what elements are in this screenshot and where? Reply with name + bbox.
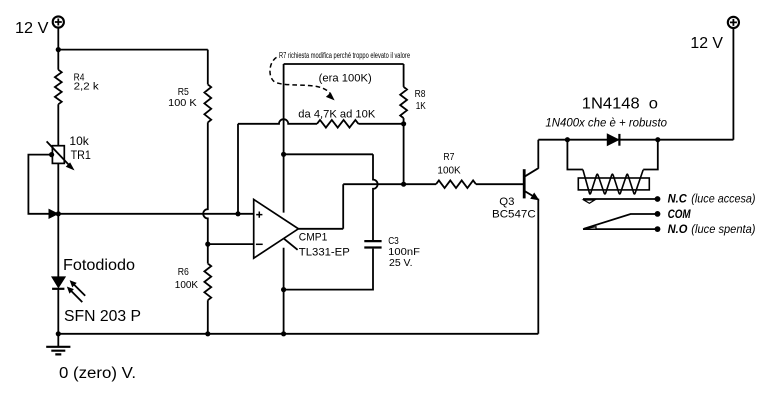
- svg-text:SFN 203 P: SFN 203 P: [64, 308, 141, 325]
- svg-text:BC547C: BC547C: [492, 209, 536, 221]
- svg-text:100K: 100K: [175, 279, 198, 291]
- svg-text:100 K: 100 K: [168, 97, 197, 109]
- svg-text:1K: 1K: [416, 100, 426, 112]
- svg-text:10k: 10k: [69, 134, 89, 148]
- svg-text:(era 100K): (era 100K): [319, 73, 372, 85]
- svg-text:0 (zero) V.: 0 (zero) V.: [59, 365, 136, 382]
- svg-text:TL331-EP: TL331-EP: [299, 247, 350, 259]
- svg-text:R6: R6: [178, 266, 189, 278]
- svg-text:R7 richiesta modifica perché t: R7 richiesta modifica perché troppo elev…: [279, 51, 410, 60]
- svg-text:12 V: 12 V: [690, 35, 723, 52]
- svg-text:TR1: TR1: [71, 148, 92, 162]
- svg-text:100K: 100K: [437, 165, 460, 177]
- svg-text:(luce accesa): (luce accesa): [691, 191, 755, 205]
- svg-text:da 4,7K ad 10K: da 4,7K ad 10K: [298, 109, 376, 121]
- svg-text:COM: COM: [668, 207, 692, 221]
- svg-text:1N400x che è + robusto: 1N400x che è + robusto: [545, 115, 667, 129]
- svg-text:12 V: 12 V: [15, 20, 49, 37]
- svg-text:25 V.: 25 V.: [389, 258, 413, 269]
- svg-text:(luce spenta): (luce spenta): [691, 222, 755, 236]
- svg-text:R5: R5: [178, 86, 189, 98]
- svg-text:1N4148 o: 1N4148 o: [582, 95, 658, 112]
- svg-text:CMP1: CMP1: [299, 231, 328, 243]
- svg-text:Fotodiodo: Fotodiodo: [63, 257, 135, 274]
- svg-text:N.O: N.O: [668, 222, 688, 236]
- svg-text:100nF: 100nF: [388, 246, 420, 258]
- svg-text:Q3: Q3: [499, 196, 514, 208]
- svg-text:N.C: N.C: [668, 191, 688, 205]
- svg-text:R8: R8: [415, 88, 426, 100]
- svg-text:C3: C3: [388, 235, 399, 247]
- svg-text:R7: R7: [443, 151, 454, 163]
- svg-text:2,2 k: 2,2 k: [74, 80, 100, 92]
